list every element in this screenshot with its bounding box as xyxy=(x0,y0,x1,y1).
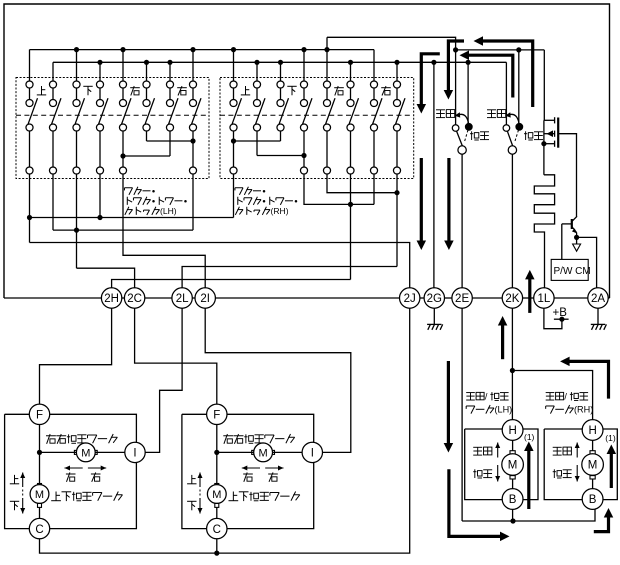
svg-text:(1): (1) xyxy=(605,433,616,443)
svg-text:2C: 2C xyxy=(127,293,142,305)
svg-text:(RH): (RH) xyxy=(271,206,289,216)
svg-text:(LH): (LH) xyxy=(495,404,513,414)
svg-text:M: M xyxy=(35,489,44,501)
svg-text:C: C xyxy=(213,524,221,536)
svg-text:+B: +B xyxy=(553,307,568,319)
svg-text:2E: 2E xyxy=(455,293,469,305)
svg-text:(LH): (LH) xyxy=(160,206,177,216)
svg-text:M: M xyxy=(212,489,221,501)
svg-text:2G: 2G xyxy=(427,293,442,305)
svg-text:2H: 2H xyxy=(104,293,119,305)
svg-text:M: M xyxy=(81,448,90,460)
svg-text:I: I xyxy=(311,448,314,460)
svg-text:2K: 2K xyxy=(505,293,519,305)
svg-text:M: M xyxy=(259,448,268,460)
svg-text:H: H xyxy=(588,425,596,437)
svg-text:F: F xyxy=(213,410,220,422)
svg-text:2A: 2A xyxy=(591,293,605,305)
svg-text:C: C xyxy=(35,524,43,536)
svg-text:B: B xyxy=(509,494,517,506)
svg-text:M: M xyxy=(508,460,518,472)
svg-text:F: F xyxy=(36,410,43,422)
svg-text:2I: 2I xyxy=(200,293,210,305)
svg-text:M: M xyxy=(588,460,598,472)
svg-text:(RH): (RH) xyxy=(574,404,593,414)
svg-text:B: B xyxy=(589,494,597,506)
svg-text:2J: 2J xyxy=(404,293,416,305)
svg-text:H: H xyxy=(508,425,516,437)
svg-text:I: I xyxy=(133,448,136,460)
svg-text:(1): (1) xyxy=(524,432,535,442)
svg-text:P/W CM: P/W CM xyxy=(554,266,591,277)
svg-text:2L: 2L xyxy=(176,293,189,305)
svg-text:1L: 1L xyxy=(538,293,551,305)
